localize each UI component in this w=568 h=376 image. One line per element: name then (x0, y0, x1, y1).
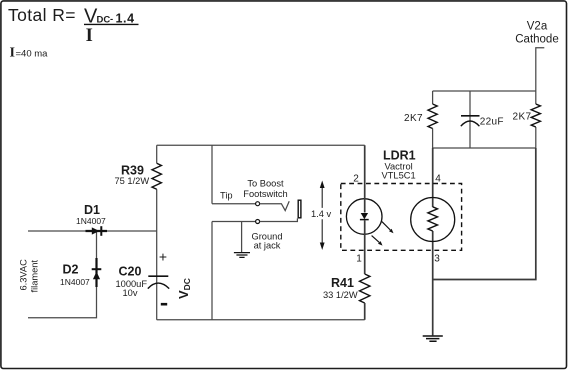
svg-text:33 1/2W: 33 1/2W (323, 290, 358, 300)
svg-text:I: I (10, 46, 15, 61)
svg-text:=40 ma: =40 ma (16, 49, 49, 60)
svg-text:1N4007: 1N4007 (60, 277, 90, 287)
svg-text:Cathode: Cathode (515, 34, 558, 46)
svg-text:I: I (86, 26, 93, 46)
svg-text:R41: R41 (331, 276, 354, 290)
svg-text:VTL5C1: VTL5C1 (382, 171, 416, 181)
svg-text:D2: D2 (63, 263, 79, 277)
svg-text:Total R=: Total R= (8, 5, 76, 25)
svg-text:3: 3 (434, 254, 440, 265)
svg-text:filament: filament (30, 260, 40, 293)
svg-text:1.4 v: 1.4 v (311, 209, 332, 219)
svg-text:To Boost: To Boost (247, 179, 284, 189)
svg-text:4: 4 (435, 174, 441, 185)
svg-text:LDR1: LDR1 (383, 149, 416, 163)
svg-text:22uF: 22uF (480, 117, 504, 128)
svg-text:2: 2 (353, 174, 359, 185)
svg-text:V2a: V2a (527, 21, 548, 33)
svg-text:6.3VAC: 6.3VAC (19, 259, 29, 291)
svg-text:75 1/2W: 75 1/2W (115, 176, 150, 186)
svg-text:2K7: 2K7 (513, 112, 532, 123)
svg-text:1.4: 1.4 (116, 12, 135, 26)
svg-text:2K7: 2K7 (404, 113, 423, 124)
svg-text:1: 1 (356, 254, 362, 265)
svg-text:Footswitch: Footswitch (243, 189, 287, 199)
svg-text:+: + (159, 249, 167, 265)
svg-text:Tip: Tip (220, 191, 233, 201)
svg-text:at jack: at jack (254, 241, 281, 251)
svg-text:-: - (110, 14, 113, 25)
svg-text:C20: C20 (119, 265, 142, 279)
svg-text:D1: D1 (84, 203, 100, 217)
svg-text:1N4007: 1N4007 (76, 216, 106, 226)
svg-text:10v: 10v (123, 288, 138, 298)
